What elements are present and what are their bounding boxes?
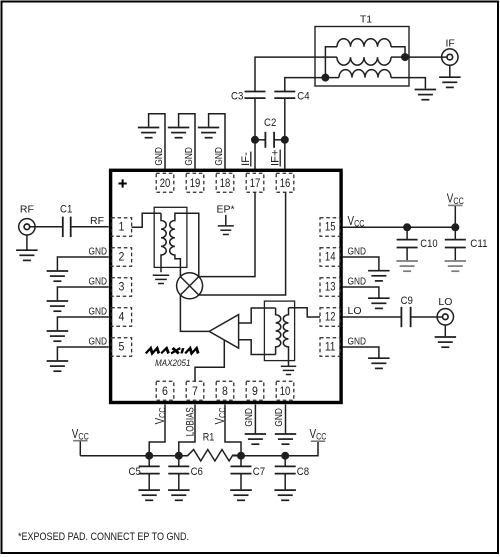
svg-text:GND: GND	[348, 245, 367, 257]
LO input connector J-LO	[437, 309, 453, 325]
svg-text:9: 9	[252, 386, 258, 398]
wire amp bias to pin 7 LOBIAS	[195, 340, 224, 381]
transformer T1 box	[315, 27, 409, 87]
wire C8 to ground	[284, 474, 286, 490]
svg-text:14: 14	[325, 252, 336, 264]
wire pin x=225 to top ground	[209, 114, 225, 169]
wire C7 to ground	[240, 474, 242, 490]
ground at top pin x=165	[138, 128, 160, 138]
pin 18 box	[216, 173, 234, 192]
ground at C8	[274, 490, 296, 500]
wire pin x=165 to top ground	[149, 114, 165, 169]
svg-text:5: 5	[118, 342, 124, 354]
pin 5 box	[111, 338, 131, 356]
ground at IF connector	[439, 77, 461, 87]
wire C1 to pin 1 RF	[71, 226, 109, 228]
svg-text:6: 6	[162, 386, 168, 398]
junction node C7	[237, 452, 245, 460]
wire C2 to IF+ node	[274, 139, 285, 141]
wire T1 middle winding to C3	[255, 57, 337, 91]
wire right pin y=347 to ground	[343, 347, 379, 358]
pin 9 box	[246, 381, 264, 400]
wire pin y=347 to left ground	[57, 347, 108, 360]
ground at RF connector	[16, 250, 37, 260]
T1 primary top winding	[337, 39, 391, 47]
ground at C7	[230, 490, 252, 500]
wire C10 to ground	[406, 248, 408, 261]
svg-text:GND: GND	[89, 245, 108, 257]
wire pin 9 to ground	[254, 405, 256, 434]
capacitor C3	[245, 92, 266, 99]
pin 11 box	[320, 338, 340, 356]
op IC U1 MAX2051 outline	[111, 170, 342, 402]
svg-text:RF: RF	[20, 204, 34, 216]
mixer U1a	[177, 273, 203, 299]
wire pin y=287 to left ground	[57, 287, 108, 300]
wire mixer to LO amp	[180, 295, 209, 331]
ground at top pin x=225	[198, 128, 220, 138]
capacitor C5	[139, 466, 160, 473]
wire T1 to IF connector	[405, 56, 447, 58]
wire C10 top lead	[406, 227, 408, 239]
svg-text:VCC: VCC	[348, 213, 365, 230]
ground at right pin y=287	[368, 298, 390, 308]
svg-text:GND: GND	[89, 275, 108, 287]
pin 12 box	[320, 308, 340, 326]
pin 13 box	[320, 278, 340, 296]
svg-text:VCC: VCC	[72, 426, 89, 443]
LO balun box	[264, 301, 294, 361]
svg-text:T1: T1	[360, 14, 372, 26]
wire C3 to IF- node	[254, 98, 256, 169]
wire C4 to IF+ node	[284, 98, 286, 169]
capacitor C9	[401, 307, 410, 327]
chip pin-1 plus mark	[119, 179, 127, 187]
wire RF connector to ground	[26, 235, 28, 250]
pin 19 box	[186, 173, 204, 192]
svg-text:10: 10	[280, 386, 291, 398]
svg-text:15: 15	[325, 222, 336, 234]
svg-text:VCC: VCC	[152, 407, 169, 424]
svg-text:19: 19	[190, 178, 201, 190]
wire T1 secondary to ground	[391, 78, 425, 89]
ground at C11 (gray)	[445, 261, 467, 271]
wire pin 8 to C7 node	[225, 405, 241, 456]
LO balun left winding	[276, 308, 281, 355]
svg-text:C7: C7	[253, 466, 265, 478]
svg-text:1: 1	[118, 222, 124, 234]
svg-text:17: 17	[250, 178, 261, 190]
junction node IF-	[251, 136, 259, 144]
svg-text:VCC: VCC	[212, 407, 229, 424]
RF input connector J-RF	[19, 219, 35, 235]
wire RF balun to mixer	[179, 266, 181, 277]
wire T1 node to C4	[285, 78, 326, 92]
wire pin 10 to ground	[285, 405, 287, 434]
svg-text:16: 16	[280, 178, 291, 190]
wire pin y=257 to left ground	[57, 257, 108, 270]
svg-text:C4: C4	[297, 90, 309, 102]
capacitor C4	[274, 92, 295, 99]
wire C11 to ground	[454, 248, 456, 261]
junction node VCC-C11	[451, 223, 459, 231]
pin 8 box	[216, 381, 234, 400]
ground at C5	[138, 490, 160, 500]
svg-text:20: 20	[160, 178, 171, 190]
ground at left pin y=347	[47, 361, 69, 371]
ground at C6	[168, 490, 190, 500]
T1 junction node right	[401, 53, 409, 61]
svg-text:GND: GND	[153, 147, 165, 166]
wire IF- node to C2	[255, 139, 265, 141]
junction node VCC-C10	[403, 223, 411, 231]
pin 16 box	[276, 173, 294, 192]
wire LO balun to pin 12	[289, 308, 321, 317]
svg-text:18: 18	[220, 178, 231, 190]
svg-text:IF: IF	[446, 38, 455, 50]
IF output connector J-IF	[442, 49, 458, 65]
svg-text:LO: LO	[348, 305, 362, 317]
pin 1 box	[111, 218, 131, 236]
svg-text:EP*: EP*	[217, 204, 235, 216]
wire C7 top lead	[240, 456, 242, 467]
pin 6 box	[156, 381, 174, 400]
svg-text:C10: C10	[420, 238, 437, 250]
svg-text:C2: C2	[264, 117, 276, 129]
ground at C10 (gray)	[396, 261, 418, 271]
IF- underline	[250, 152, 252, 167]
T1 top winding left lead	[325, 47, 337, 78]
ground at T1 secondary	[415, 90, 437, 100]
ground at left pin y=257	[47, 271, 69, 281]
LO balun right winding	[283, 308, 288, 366]
pin 3 box	[111, 278, 131, 296]
wire pin y=317 to left ground	[57, 317, 108, 330]
pin 20 box	[156, 173, 174, 192]
svg-text:C8: C8	[297, 466, 309, 478]
wire VCC rail left	[80, 455, 183, 457]
pin 10 box	[276, 381, 294, 400]
wire pin x=195 to top ground	[179, 114, 195, 169]
pin 14 box	[320, 248, 340, 266]
RF balun right winding	[170, 213, 187, 266]
capacitor C2	[265, 132, 274, 148]
svg-text:LOBIAS: LOBIAS	[185, 407, 197, 436]
svg-text:R1: R1	[203, 432, 215, 444]
svg-text:GND: GND	[348, 335, 367, 347]
VCC supply symbol bottom left	[73, 441, 87, 456]
wire C5 to ground	[148, 474, 150, 490]
wire LO connector to ground	[444, 325, 446, 336]
svg-text:C1: C1	[60, 203, 72, 215]
svg-text:GND: GND	[89, 335, 108, 347]
svg-text:GND: GND	[183, 147, 195, 166]
wire VCC rail right	[233, 441, 318, 456]
T1 middle winding right lead	[391, 56, 405, 58]
T1 secondary bottom winding	[339, 70, 391, 78]
pin 7 box	[186, 381, 204, 400]
capacitor C10	[397, 240, 418, 248]
wire mixer to pin 17	[199, 192, 255, 276]
wire C11 top lead	[454, 227, 456, 239]
svg-text:13: 13	[325, 282, 336, 294]
svg-text:RF: RF	[90, 215, 104, 227]
wire right pin y=257 to ground	[343, 257, 379, 270]
wire EP to ground	[225, 215, 227, 225]
wire C6 to ground	[178, 474, 180, 490]
LO buffer amp U1b	[209, 315, 238, 349]
wire C9 to LO connector	[411, 316, 443, 318]
svg-text:11: 11	[325, 342, 336, 354]
ground at pin 10	[275, 434, 296, 444]
IF+ underline	[279, 150, 281, 167]
T1 middle winding	[337, 57, 391, 65]
pin 4 box	[111, 308, 131, 326]
wire RF connector to C1	[30, 226, 63, 228]
capacitor C1	[63, 217, 71, 238]
ground at LO balun	[281, 366, 296, 374]
ground at right pin y=257	[368, 271, 390, 281]
svg-text:VCC: VCC	[447, 191, 464, 208]
resistor R1	[179, 450, 241, 462]
VCC supply symbol top right	[448, 205, 462, 227]
ground at pin 9	[245, 434, 266, 444]
RF balun left winding	[161, 213, 166, 272]
ground at EP	[218, 226, 234, 235]
svg-text:7: 7	[192, 386, 198, 398]
junction node C6	[175, 452, 183, 460]
ground at left pin y=287	[47, 301, 69, 311]
pin 17 box	[246, 173, 264, 192]
wire IF connector to ground	[449, 65, 451, 76]
T1 bottom winding left lead	[325, 77, 339, 79]
capacitor C6	[168, 466, 189, 473]
svg-text:C11: C11	[470, 238, 487, 250]
wire RF balun top to mixer node	[187, 213, 199, 276]
ground at RF balun	[153, 275, 169, 283]
svg-text:VCC: VCC	[310, 426, 327, 443]
svg-text:LO: LO	[438, 296, 452, 308]
MAXIM logo	[146, 348, 200, 353]
T1 junction node left	[321, 74, 329, 82]
svg-text:MAX2051: MAX2051	[155, 358, 191, 369]
svg-text:C3: C3	[231, 90, 243, 102]
T1 top winding right lead	[391, 47, 405, 57]
capacitor C11	[445, 240, 466, 248]
wire C6 top lead	[178, 456, 180, 467]
svg-text:GND: GND	[348, 275, 367, 287]
svg-text:GND: GND	[243, 408, 255, 427]
svg-text:GND: GND	[273, 408, 285, 427]
svg-text:C5: C5	[129, 466, 141, 478]
wire pin 7 LOBIAS to C6 node	[179, 405, 195, 456]
svg-text:C9: C9	[401, 295, 413, 307]
svg-text:C6: C6	[191, 466, 203, 478]
ground at left pin y=317	[47, 331, 69, 341]
junction node IF+	[281, 136, 289, 144]
wire amp bottom input	[239, 340, 276, 355]
wire right pin y=287 to ground	[343, 287, 379, 298]
svg-text:12: 12	[325, 312, 336, 324]
pin 15 box	[320, 218, 340, 236]
svg-text:2: 2	[118, 252, 124, 264]
svg-text:*EXPOSED PAD. CONNECT EP TO GN: *EXPOSED PAD. CONNECT EP TO GND.	[18, 531, 189, 543]
svg-text:3: 3	[118, 282, 124, 294]
wire pin 12 LO to C9	[343, 316, 402, 318]
RF balun box	[154, 207, 187, 267]
svg-text:GND: GND	[213, 147, 225, 166]
wire pin 6 to C5 node	[149, 405, 165, 456]
ground at LO connector	[435, 337, 457, 347]
pin 2 box	[111, 248, 131, 266]
svg-text:GND: GND	[89, 305, 108, 317]
junction node C8	[281, 452, 289, 460]
ground at top pin x=195	[168, 128, 190, 138]
wire amp top input	[239, 308, 276, 323]
VCC supply symbol bottom right	[311, 440, 325, 442]
junction node C5	[145, 452, 153, 460]
capacitor C8	[275, 466, 296, 473]
svg-text:4: 4	[118, 312, 124, 324]
ground at right pin y=347	[368, 358, 390, 368]
svg-text:8: 8	[222, 386, 228, 398]
wire C5 top lead	[148, 456, 150, 467]
wire C8 top lead	[284, 456, 286, 467]
wire mixer to pin 16	[199, 192, 286, 295]
capacitor C7	[231, 466, 252, 473]
wire pin 15 VCC rail	[343, 226, 456, 228]
wire pin 1 to RF balun	[132, 213, 161, 227]
